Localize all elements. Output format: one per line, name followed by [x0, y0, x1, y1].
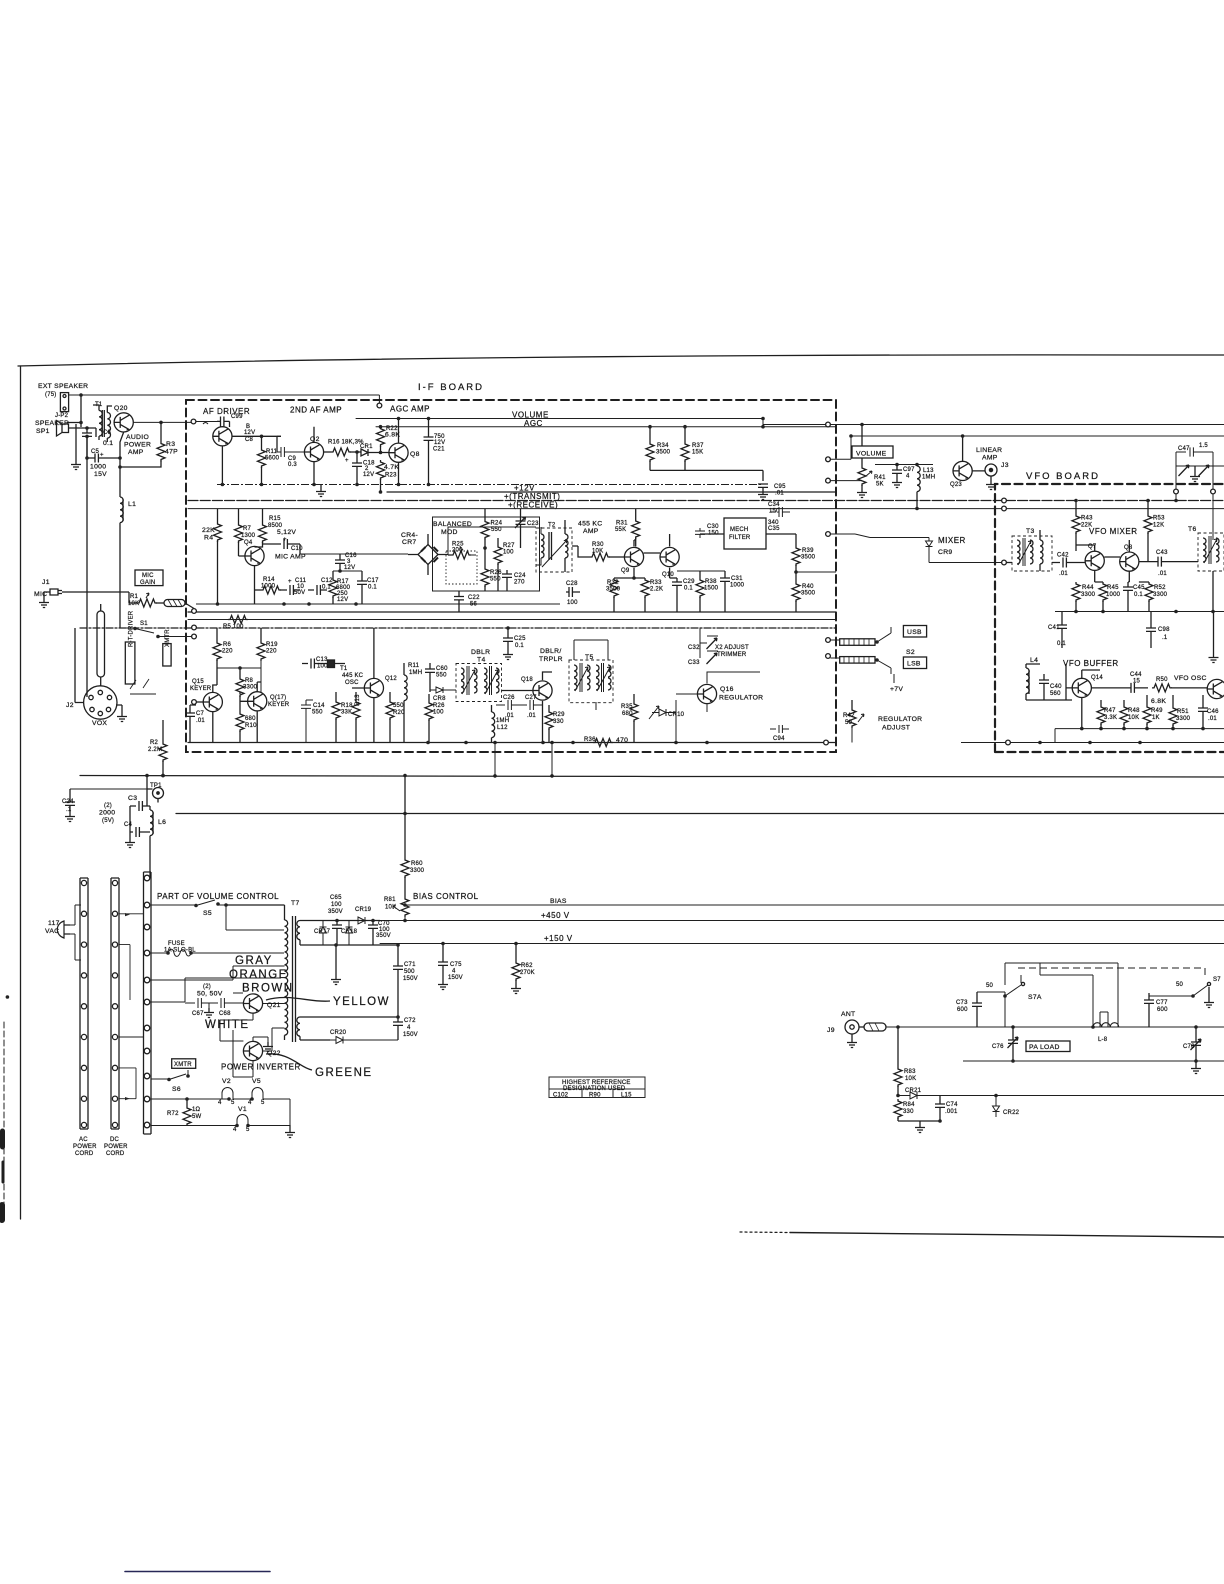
svg-text:C28: C28 [566, 581, 578, 587]
svg-text:GAIN: GAIN [140, 580, 155, 586]
svg-text:R84: R84 [903, 1102, 915, 1108]
svg-text:560: 560 [1050, 691, 1061, 697]
capacitor C40 [1039, 674, 1049, 700]
svg-text:5600: 5600 [265, 456, 280, 462]
diode CR20 [330, 1037, 398, 1044]
svg-text:550: 550 [491, 527, 502, 533]
chassis terminal strip [144, 872, 152, 1134]
transformer T6 [1198, 533, 1224, 571]
svg-text:C29: C29 [683, 579, 695, 585]
svg-text:12V: 12V [244, 430, 255, 436]
AF driver input terminal [191, 419, 196, 424]
switch S2 arms [877, 633, 891, 668]
svg-text:50, 50V: 50, 50V [197, 991, 223, 998]
svg-text:22K: 22K [202, 527, 215, 534]
svg-text:Q21: Q21 [267, 1002, 281, 1009]
resistor R4 [217, 509, 219, 522]
pa main line [886, 1026, 1224, 1028]
svg-text:R53: R53 [1153, 516, 1165, 522]
capacitor C6 [82, 427, 92, 458]
left edge ink blob 1 [0, 1131, 5, 1147]
capacitor C9 [277, 436, 305, 457]
transistor Q13 vfo osc [1207, 679, 1224, 698]
svg-text:150: 150 [769, 509, 780, 515]
svg-text:10K: 10K [592, 549, 603, 555]
svg-text:2ND AF AMP: 2ND AF AMP [290, 406, 342, 415]
svg-text:Q18: Q18 [521, 677, 533, 683]
transistor Q21 power inverter [243, 994, 262, 1013]
svg-text:C67: C67 [192, 1011, 204, 1017]
117 VAC plug [57, 921, 70, 938]
svg-text:L1: L1 [128, 501, 136, 508]
speaker SP1 [57, 421, 69, 437]
svg-text:VFO OSC: VFO OSC [1174, 675, 1207, 682]
capacitor C45 [1123, 582, 1133, 612]
svg-text:R47: R47 [1104, 708, 1116, 714]
wire orange [151, 978, 281, 1002]
svg-text:S2: S2 [906, 649, 915, 656]
transistor Q15 keyer [203, 692, 222, 711]
capacitor C3 [130, 801, 150, 811]
svg-text:15: 15 [1133, 679, 1141, 685]
wire speaker to T1 [69, 428, 97, 437]
wire mic amp out [333, 563, 362, 571]
ground secondary center [335, 945, 337, 975]
svg-text:220: 220 [222, 649, 233, 655]
resistor R81 bias pot [404, 881, 406, 897]
svg-text:220: 220 [266, 649, 277, 655]
svg-text:0.3: 0.3 [288, 462, 297, 468]
resistor R13 [355, 692, 357, 700]
capacitor C31 [720, 571, 730, 612]
svg-text:DBLR/: DBLR/ [540, 648, 562, 655]
resistor R11 [261, 436, 263, 448]
wire Q20 collector to board input node [133, 421, 193, 423]
resistor R47 [1100, 700, 1102, 705]
svg-text:MECH: MECH [730, 527, 748, 533]
svg-text:CR20: CR20 [330, 1030, 347, 1036]
volume rail [356, 419, 1224, 427]
diode bridge CR4-CR7 [418, 545, 438, 565]
svg-text:T7: T7 [291, 900, 300, 907]
svg-text:T4: T4 [477, 657, 486, 664]
svg-text:Q(17): Q(17) [270, 695, 286, 701]
resistor R18 [335, 692, 337, 700]
resistor R3 [160, 422, 162, 441]
svg-text:R51: R51 [1177, 709, 1189, 715]
svg-text:C75: C75 [450, 962, 462, 968]
capacitor C65 [332, 921, 342, 946]
svg-text:3300: 3300 [243, 685, 258, 691]
svg-text:R42: R42 [843, 713, 855, 719]
keyer input terminal [192, 700, 197, 705]
svg-text:BROWN: BROWN [242, 983, 294, 995]
svg-text:3300: 3300 [410, 868, 425, 874]
svg-text:C47: C47 [1178, 446, 1190, 452]
transistor Q1 AF driver [213, 427, 232, 446]
svg-text:C60: C60 [436, 666, 448, 672]
switch S1 [120, 628, 194, 637]
transmit rail [188, 500, 1224, 502]
svg-text:FILTER: FILTER [729, 535, 751, 541]
svg-text:CR17: CR17 [314, 929, 331, 935]
svg-text:4: 4 [218, 1100, 222, 1106]
svg-text:(2): (2) [203, 984, 211, 990]
curved wire green [266, 1054, 312, 1070]
emitter rail [217, 484, 763, 486]
svg-text:C5: C5 [91, 449, 100, 455]
svg-text:C41: C41 [1048, 625, 1060, 631]
resistor R15 [262, 509, 264, 523]
svg-text:VOX: VOX [92, 720, 107, 727]
svg-text:R4: R4 [204, 535, 213, 542]
capacitor C70 [368, 921, 378, 946]
transistor Q9 [624, 547, 643, 566]
mechanical filter box [724, 518, 766, 549]
test point TP1 [153, 788, 164, 799]
svg-text:C102: C102 [553, 1093, 569, 1099]
svg-text:R60: R60 [411, 861, 423, 867]
svg-text:C95: C95 [774, 484, 786, 490]
svg-text:0.1: 0.1 [368, 585, 377, 591]
svg-text:15K: 15K [692, 450, 703, 456]
capacitor C14 [301, 700, 313, 743]
svg-text:1000: 1000 [1106, 592, 1121, 598]
svg-text:.01: .01 [1158, 571, 1167, 577]
svg-text:C13: C13 [316, 657, 328, 663]
svg-text:R20: R20 [393, 710, 405, 716]
svg-text:KEYER: KEYER [268, 702, 290, 708]
svg-text:R62: R62 [521, 963, 533, 969]
capacitor C41 [1057, 612, 1067, 649]
switch S5 [151, 900, 284, 930]
svg-text:2.2K: 2.2K [650, 587, 663, 593]
diode CR8 [430, 687, 456, 693]
svg-text:MIC: MIC [142, 573, 154, 579]
svg-text:R6: R6 [223, 642, 232, 648]
svg-text:V2: V2 [222, 1078, 231, 1085]
455 kc amp input [578, 546, 590, 557]
svg-text:Q12: Q12 [385, 676, 397, 682]
svg-text:455 KC: 455 KC [578, 521, 602, 528]
svg-text:AMP: AMP [583, 528, 599, 535]
svg-text:R19: R19 [266, 642, 278, 648]
svg-text:550: 550 [312, 710, 323, 716]
svg-text:S6: S6 [172, 1086, 181, 1093]
capacitor C78 variable [1191, 1027, 1201, 1061]
coax stub [859, 1026, 864, 1028]
I-F board dashed outline [186, 400, 836, 752]
inductor L8 [1093, 1023, 1119, 1027]
resistor R31 [635, 509, 637, 519]
transistor Q16 regulator [697, 684, 716, 703]
svg-text:TP1: TP1 [150, 783, 162, 789]
svg-text:R40: R40 [802, 584, 814, 590]
diode CR19 [358, 917, 365, 924]
transformer T4 [456, 664, 502, 702]
resistor R26b [428, 694, 430, 701]
svg-text:5K: 5K [876, 482, 884, 488]
wire rail to bus A [495, 743, 552, 776]
svg-text:R18: R18 [341, 703, 353, 709]
wire brown to Q21 base [233, 992, 243, 994]
svg-text:C34: C34 [768, 502, 780, 508]
svg-text:Q15: Q15 [192, 679, 204, 685]
svg-text:LSB: LSB [907, 661, 921, 668]
svg-text:FUSE: FUSE [168, 941, 185, 947]
capacitor C74 [935, 1096, 945, 1122]
svg-text:POWER: POWER [73, 1144, 97, 1150]
svg-text:C4: C4 [124, 822, 133, 828]
bus B [176, 813, 1224, 815]
svg-text:C24: C24 [62, 799, 74, 805]
svg-text:DESIGNATION USED: DESIGNATION USED [563, 1086, 626, 1092]
potentiometer R1 [129, 592, 137, 603]
resistor R23 [377, 460, 385, 480]
svg-text:C3: C3 [128, 795, 137, 802]
resistor R26 [484, 548, 486, 567]
svg-text:Q16: Q16 [720, 686, 734, 693]
svg-text:CORD: CORD [75, 1151, 94, 1157]
diode CR1 [361, 449, 389, 456]
resistor R52 [1145, 582, 1153, 602]
svg-text:T3: T3 [1026, 528, 1035, 535]
svg-text:R35: R35 [621, 704, 633, 710]
balanced mod enclosure [433, 517, 540, 591]
svg-text:J-P2: J-P2 [55, 413, 69, 419]
left edge ink blob 3 [0, 1205, 5, 1220]
transistor Q17 keyer [248, 692, 267, 711]
svg-text:R13: R13 [355, 694, 361, 706]
svg-text:Q14: Q14 [1091, 675, 1103, 681]
svg-text:6.8K: 6.8K [385, 432, 400, 439]
svg-text:15V: 15V [94, 471, 107, 478]
transformer T7 secondary top [297, 921, 300, 940]
reference designation table [549, 1077, 645, 1098]
svg-text:AGC AMP: AGC AMP [390, 405, 430, 414]
resistor R34 [649, 427, 651, 442]
relay contact arm [130, 679, 156, 694]
svg-text:+450 V: +450 V [541, 911, 570, 920]
pa tank wiring [1005, 963, 1118, 1027]
fuse [151, 949, 284, 956]
svg-text:I-F BOARD: I-F BOARD [418, 382, 484, 393]
boxed label xmit [163, 644, 171, 666]
svg-text:AGC: AGC [524, 419, 543, 428]
wire Q1 collector row [232, 435, 281, 437]
svg-text:VFO MIXER: VFO MIXER [1089, 527, 1138, 536]
svg-text:R-T-DRIVER: R-T-DRIVER [129, 610, 135, 647]
svg-text:(2): (2) [104, 803, 112, 809]
svg-text:T2: T2 [548, 523, 556, 529]
svg-text:.001: .001 [945, 1109, 958, 1115]
capacitor C46 [1198, 695, 1208, 729]
resistor R20 [389, 692, 391, 700]
band linkage dashed [1018, 967, 1205, 969]
resistor R19 [260, 628, 262, 641]
svg-text:+(RECEIVE): +(RECEIVE) [508, 501, 558, 510]
if board bottom inner rail [188, 742, 836, 744]
inductor L11 [403, 663, 405, 675]
svg-text:1MH: 1MH [409, 670, 422, 676]
svg-text:3.3K: 3.3K [1104, 715, 1117, 721]
svg-text:C94: C94 [773, 736, 785, 742]
svg-text:R36: R36 [584, 737, 596, 743]
svg-text:Q7: Q7 [1088, 544, 1097, 550]
svg-text:+: + [288, 579, 292, 585]
svg-text:R30: R30 [592, 542, 604, 548]
svg-text:R50: R50 [1156, 677, 1168, 683]
vfo bottom rail [1055, 728, 1224, 730]
resistor R24 [484, 509, 486, 520]
svg-text:POWER INVERTER: POWER INVERTER [221, 1063, 301, 1072]
trimmer capacitor C23 [516, 509, 526, 548]
LSB box [903, 657, 926, 669]
svg-text:R49: R49 [1151, 708, 1163, 714]
svg-text:R90: R90 [589, 1093, 601, 1099]
svg-text:+: + [100, 453, 104, 459]
svg-text:C98: C98 [1158, 627, 1170, 633]
svg-text:L4: L4 [1030, 657, 1038, 664]
capacitor C95 to ground [758, 484, 768, 490]
svg-text:C12: C12 [321, 578, 333, 584]
transformer T7 secondary bottom [297, 1017, 300, 1036]
capacitor C98 [1146, 612, 1156, 649]
switch S6 [151, 1070, 188, 1080]
resistor R7 [238, 509, 240, 523]
svg-text:+150 V: +150 V [544, 934, 573, 943]
svg-text:R15: R15 [269, 516, 281, 522]
resistor R49 [1146, 695, 1148, 705]
svg-text:150V: 150V [448, 975, 463, 981]
capacitor C17 [357, 571, 367, 604]
svg-text:R38: R38 [705, 579, 717, 585]
capacitor C34 [770, 507, 790, 517]
svg-text:SPEAKER: SPEAKER [35, 420, 69, 427]
resistor R44 [1072, 582, 1080, 602]
inductor L1 [119, 495, 121, 497]
svg-text:R23: R23 [385, 473, 397, 479]
svg-text:L6: L6 [158, 819, 166, 826]
svg-text:PART OF VOLUME CONTROL: PART OF VOLUME CONTROL [157, 892, 279, 901]
svg-text:VAC: VAC [45, 928, 59, 935]
svg-text:R1: R1 [130, 594, 139, 600]
svg-text:R48: R48 [1128, 708, 1140, 714]
svg-text:1500: 1500 [704, 586, 719, 592]
volume control box [852, 446, 893, 458]
svg-text:C32: C32 [688, 645, 700, 651]
resistor R38 [696, 578, 704, 598]
capacitor C16 [335, 554, 345, 571]
svg-text:CR4-: CR4- [401, 532, 418, 539]
svg-text:V5: V5 [252, 1078, 261, 1085]
svg-text:55K: 55K [615, 527, 626, 533]
svg-text:R24: R24 [491, 521, 503, 527]
svg-text:550: 550 [490, 577, 501, 583]
wire edge to q23 row [830, 436, 862, 481]
capacitor C73 [972, 992, 982, 1027]
trimmer C32 [700, 628, 718, 658]
+12v rail [387, 491, 836, 493]
AC power cord strip [80, 878, 88, 1129]
svg-text:12V: 12V [337, 597, 348, 603]
svg-text:150V: 150V [403, 1032, 418, 1038]
svg-text:DBLR: DBLR [471, 649, 490, 656]
svg-text:VFO BUFFER: VFO BUFFER [1063, 659, 1119, 668]
svg-text:CORD: CORD [106, 1151, 125, 1157]
svg-text:1000: 1000 [90, 464, 106, 471]
resistor R83 [897, 1027, 899, 1067]
capacitor C99 [217, 417, 230, 428]
svg-text:56: 56 [470, 602, 478, 608]
svg-text:J1: J1 [42, 579, 50, 586]
mid rail 1 [188, 611, 836, 613]
svg-text:R39: R39 [802, 548, 814, 554]
svg-text:MIXER: MIXER [938, 536, 966, 545]
svg-text:10K: 10K [385, 905, 396, 911]
svg-text:1MH: 1MH [496, 718, 509, 724]
svg-text:R37: R37 [692, 443, 704, 449]
ground speaker return [75, 424, 77, 460]
svg-text:4: 4 [452, 969, 456, 975]
svg-text:L15: L15 [621, 1093, 632, 1099]
svg-text:L13: L13 [923, 468, 934, 474]
svg-text:T1: T1 [340, 666, 348, 672]
svg-text:4: 4 [906, 474, 910, 480]
resistor R29 [548, 705, 550, 710]
wire gray [151, 966, 285, 980]
svg-text:500: 500 [404, 969, 415, 975]
relay K1 coil capsule [97, 611, 105, 677]
svg-text:AMP: AMP [982, 455, 998, 462]
svg-text:C6: C6 [103, 430, 112, 436]
svg-text:47P: 47P [165, 449, 178, 456]
svg-text:Q8: Q8 [1124, 545, 1133, 551]
svg-text:600: 600 [1157, 1007, 1168, 1013]
svg-text:C27: C27 [525, 695, 537, 701]
svg-text:L-8: L-8 [1098, 1037, 1108, 1043]
receive rail [188, 508, 1224, 510]
svg-text:C23: C23 [527, 521, 539, 527]
capacitor C94 [770, 725, 789, 733]
svg-text:550: 550 [436, 673, 447, 679]
svg-text:V1: V1 [238, 1106, 247, 1113]
svg-text:270K: 270K [520, 970, 535, 976]
capacitor C5 electrolytic [87, 436, 120, 462]
switch S7 [1149, 985, 1208, 996]
svg-text:CR22: CR22 [1003, 1110, 1020, 1116]
resistor R6 [216, 628, 218, 641]
svg-text:Q20: Q20 [114, 405, 128, 412]
svg-text:C10: C10 [291, 546, 303, 552]
transistor Q20 [114, 413, 133, 432]
svg-text:680: 680 [245, 716, 256, 722]
svg-text:33K: 33K [341, 710, 352, 716]
svg-text:BIAS CONTROL: BIAS CONTROL [413, 892, 479, 901]
svg-text:BALANCED: BALANCED [433, 521, 472, 528]
svg-text:100: 100 [317, 664, 328, 670]
transistor Q14 vfo buffer [1072, 678, 1091, 697]
svg-text:TRPLR: TRPLR [539, 656, 563, 663]
svg-text:R81: R81 [384, 897, 396, 903]
svg-text:330: 330 [553, 719, 564, 725]
switch S7A [1005, 985, 1021, 1027]
svg-text:12V: 12V [344, 565, 355, 571]
svg-text:J3: J3 [1001, 462, 1009, 469]
svg-text:3500: 3500 [801, 591, 816, 597]
diode CR22 [993, 1096, 1000, 1118]
svg-text:1300: 1300 [241, 533, 256, 539]
